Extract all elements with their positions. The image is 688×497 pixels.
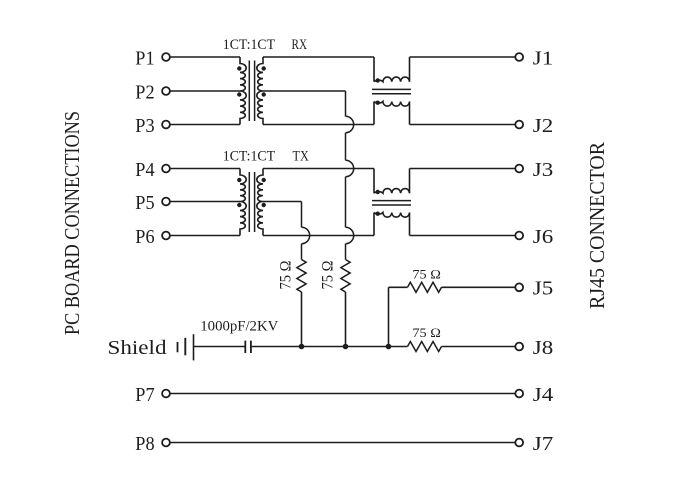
svg-text:J5: J5: [533, 278, 554, 300]
svg-text:P6: P6: [135, 226, 154, 248]
svg-text:1CT:1CT: 1CT:1CT: [223, 148, 275, 164]
svg-text:P3: P3: [135, 115, 154, 137]
svg-text:J3: J3: [533, 159, 554, 181]
svg-text:P7: P7: [135, 384, 154, 406]
svg-text:J6: J6: [533, 226, 554, 248]
svg-text:75 Ω: 75 Ω: [412, 325, 441, 340]
svg-text:P1: P1: [135, 47, 154, 69]
svg-text:PC BOARD CONNECTIONS: PC BOARD CONNECTIONS: [60, 111, 84, 335]
svg-text:Shield: Shield: [108, 337, 167, 359]
svg-text:J2: J2: [533, 115, 554, 137]
svg-text:J4: J4: [533, 384, 554, 406]
svg-text:75 Ω: 75 Ω: [412, 267, 441, 282]
svg-text:1CT:1CT: 1CT:1CT: [223, 37, 275, 53]
svg-text:P2: P2: [135, 81, 154, 103]
svg-text:1000pF/2KV: 1000pF/2KV: [200, 319, 278, 335]
svg-text:75 Ω: 75 Ω: [278, 261, 295, 290]
svg-text:RJ45 CONNECTOR: RJ45 CONNECTOR: [585, 142, 609, 309]
svg-text:J8: J8: [533, 337, 554, 359]
svg-text:P5: P5: [135, 192, 154, 214]
svg-text:RX: RX: [292, 37, 308, 53]
svg-text:P4: P4: [135, 159, 154, 181]
svg-text:J7: J7: [533, 433, 554, 455]
svg-text:J1: J1: [533, 47, 554, 69]
svg-text:P8: P8: [135, 433, 154, 455]
svg-text:TX: TX: [293, 148, 309, 164]
svg-text:75 Ω: 75 Ω: [320, 261, 337, 290]
